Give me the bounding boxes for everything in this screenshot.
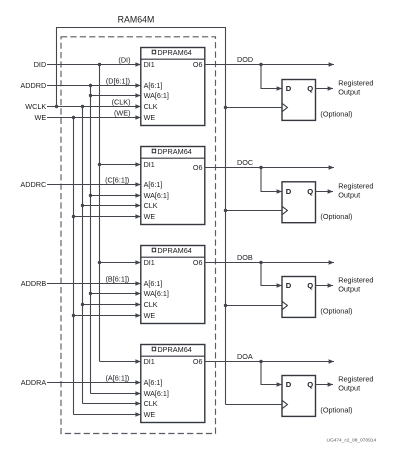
junction WCLK to top path — [55, 105, 58, 108]
junction DOC branch — [259, 166, 262, 169]
svg-text:DPRAM64: DPRAM64 — [157, 147, 191, 156]
svg-text:ADDRA: ADDRA — [21, 378, 47, 387]
RAM64M dashed boundary box — [61, 37, 216, 434]
node Registered Output label A — [338, 375, 373, 393]
wire DIC from DID bus to DPRAM64 C — [100, 164, 141, 166]
wire ADDRC — [47, 184, 141, 186]
wire Q output FF C — [316, 191, 334, 193]
wire WCLK top distribution path — [57, 28, 226, 405]
wire clock to FF B — [226, 305, 283, 307]
svg-text:Output: Output — [338, 87, 360, 96]
svg-text:O6: O6 — [193, 60, 203, 69]
DPRAM64 block A — [141, 345, 205, 423]
svg-text:ADDRD: ADDRD — [20, 81, 46, 90]
wire WE — [47, 117, 141, 119]
DPRAM64 block B — [141, 246, 205, 324]
svg-text:WA[6:1]: WA[6:1] — [144, 389, 169, 398]
svg-text:WE: WE — [144, 311, 156, 320]
junction DOB branch — [259, 261, 262, 264]
wire WE tap to DPRAM64 B — [74, 315, 141, 317]
wire DIB from DID bus to DPRAM64 B — [100, 262, 141, 264]
svg-text:(Optional): (Optional) — [320, 110, 352, 119]
wire WA tap to DPRAM64 D — [91, 95, 141, 97]
svg-text:A[6:1]: A[6:1] — [144, 279, 163, 288]
wire branch DOA to FF A D input — [261, 362, 282, 385]
flip-flop FF C — [282, 182, 316, 223]
wire DOB output from O6 — [205, 262, 334, 264]
wire WA tap to DPRAM64 C — [91, 195, 141, 197]
junction clock bus tap FF C — [224, 209, 227, 212]
svg-text:(A[6:1]): (A[6:1]) — [106, 373, 130, 382]
svg-text:DPRAM64: DPRAM64 — [157, 48, 191, 57]
svg-text:Q: Q — [307, 187, 313, 196]
node Registered Output label B — [338, 276, 373, 294]
wire ADDRD write-address vertical bus — [90, 86, 92, 394]
wire DOA output from O6 — [205, 361, 334, 363]
svg-text:WE: WE — [144, 212, 156, 221]
svg-text:O6: O6 — [193, 258, 203, 267]
flip-flop FF B — [282, 277, 316, 318]
flip-flop FF D — [282, 80, 316, 121]
wire WCLK — [47, 106, 141, 108]
flip-flop FF A — [282, 376, 316, 417]
wire Q output FF B — [316, 285, 334, 287]
junction clock bus tap FF D — [224, 106, 227, 109]
svg-text:A[6:1]: A[6:1] — [144, 81, 163, 90]
svg-text:DI1: DI1 — [144, 258, 155, 267]
wire ADDRD — [47, 85, 141, 87]
wire clock to FF C — [226, 210, 283, 212]
svg-text:(C[6:1]): (C[6:1]) — [105, 175, 129, 184]
svg-text:DOD: DOD — [237, 55, 253, 64]
wire branch DOD to FF D D input — [261, 65, 282, 89]
svg-text:Output: Output — [338, 190, 360, 199]
wire ADDRA — [47, 382, 141, 384]
svg-text:DPRAM64: DPRAM64 — [157, 345, 191, 354]
wire DIA from DID bus to DPRAM64 A — [100, 361, 141, 363]
DPRAM64 block D — [141, 48, 205, 126]
svg-text:WA[6:1]: WA[6:1] — [144, 289, 169, 298]
wire clock to FF A — [226, 404, 283, 406]
wire DOD output from O6 — [205, 64, 334, 66]
svg-text:WE: WE — [144, 410, 156, 419]
svg-text:D: D — [286, 187, 292, 196]
svg-text:D: D — [286, 84, 292, 93]
svg-text:WA[6:1]: WA[6:1] — [144, 191, 169, 200]
wire Q output FF A — [316, 384, 334, 386]
wire Q output FF D — [316, 88, 334, 90]
svg-text:DI1: DI1 — [144, 357, 155, 366]
svg-text:WCLK: WCLK — [25, 102, 46, 111]
svg-text:DOA: DOA — [237, 352, 253, 361]
svg-text:O6: O6 — [193, 357, 203, 366]
svg-text:(WE): (WE) — [114, 108, 131, 117]
node Registered Output label C — [338, 182, 373, 200]
wire DID — [47, 64, 141, 66]
wire DID data vertical bus — [99, 65, 101, 362]
svg-text:DI1: DI1 — [144, 160, 155, 169]
wire WE tap to DPRAM64 C — [74, 216, 141, 218]
svg-text:ADDRB: ADDRB — [21, 279, 47, 288]
junction WCLK bus taps — [81, 105, 84, 108]
svg-text:A[6:1]: A[6:1] — [144, 180, 163, 189]
wire branch DOC to FF C D input — [261, 168, 282, 192]
svg-text:DOC: DOC — [237, 158, 253, 167]
wire CLK tap to DPRAM64 B — [83, 304, 141, 306]
svg-text:(CLK): (CLK) — [112, 97, 131, 106]
svg-text:Registered: Registered — [338, 276, 373, 285]
svg-text:DPRAM64: DPRAM64 — [157, 246, 191, 255]
svg-text:RAM64M: RAM64M — [118, 15, 155, 25]
node Registered Output label D — [338, 79, 373, 97]
svg-text:Q: Q — [307, 84, 313, 93]
svg-text:Output: Output — [338, 383, 360, 392]
junction DOA branch — [259, 360, 262, 363]
svg-text:O6: O6 — [193, 163, 203, 172]
wire ADDRB — [47, 283, 141, 285]
svg-text:UG474_c2_08_070914: UG474_c2_08_070914 — [327, 437, 377, 443]
svg-text:DOB: DOB — [237, 253, 253, 262]
svg-text:(Optional): (Optional) — [320, 212, 352, 221]
wire CLK tap to DPRAM64 C — [83, 205, 141, 207]
wire branch DOB to FF B D input — [261, 263, 282, 286]
svg-text:WE: WE — [144, 113, 156, 122]
svg-text:(D[6:1]): (D[6:1]) — [106, 76, 130, 85]
svg-text:(Optional): (Optional) — [320, 406, 352, 415]
svg-text:Q: Q — [307, 281, 313, 290]
svg-text:Output: Output — [338, 284, 360, 293]
wire DOC output from O6 — [205, 167, 334, 169]
svg-text:Registered: Registered — [338, 182, 373, 191]
wire WE tap to DPRAM64 A — [74, 414, 141, 416]
junction DOD branch — [259, 63, 262, 66]
junction WE bus taps — [72, 116, 75, 119]
wire WA tap to DPRAM64 B — [91, 293, 141, 295]
svg-text:(Optional): (Optional) — [320, 307, 352, 316]
wire WA tap to DPRAM64 A — [91, 393, 141, 395]
svg-text:A[6:1]: A[6:1] — [144, 378, 163, 387]
wire WE vertical bus — [73, 118, 75, 415]
svg-text:Q: Q — [307, 380, 313, 389]
svg-text:Registered: Registered — [338, 79, 373, 88]
wire WCLK vertical bus — [82, 107, 84, 404]
svg-text:WA[6:1]: WA[6:1] — [144, 91, 169, 100]
svg-text:D: D — [286, 380, 292, 389]
svg-text:WE: WE — [35, 113, 47, 122]
svg-text:(DI): (DI) — [118, 55, 130, 64]
svg-text:CLK: CLK — [144, 300, 158, 309]
svg-text:CLK: CLK — [144, 399, 158, 408]
junction DID bus taps — [98, 63, 101, 66]
svg-text:CLK: CLK — [144, 201, 158, 210]
svg-text:ADDRC: ADDRC — [20, 180, 46, 189]
svg-text:D: D — [286, 281, 292, 290]
svg-text:(B[6:1]): (B[6:1]) — [106, 274, 130, 283]
wire CLK tap to DPRAM64 A — [83, 403, 141, 405]
junction ADDRD bus taps — [89, 84, 92, 87]
DPRAM64 block C — [141, 147, 205, 225]
svg-text:DID: DID — [34, 60, 47, 69]
svg-text:DI1: DI1 — [144, 60, 155, 69]
junction clock bus tap FF B — [224, 304, 227, 307]
wire clock to FF D — [226, 107, 283, 109]
svg-text:Registered: Registered — [338, 375, 373, 384]
svg-text:CLK: CLK — [144, 102, 158, 111]
